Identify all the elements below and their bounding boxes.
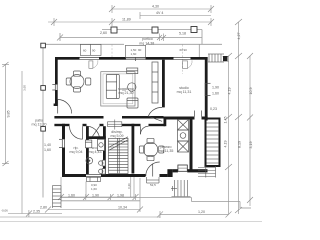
svg-text:1,60: 1,60 xyxy=(44,148,51,152)
svg-text:90: 90 xyxy=(184,48,188,52)
svg-text:4,27: 4,27 xyxy=(237,33,241,40)
svg-text:10,9: 10,9 xyxy=(249,88,253,95)
svg-text:4,19: 4,19 xyxy=(228,88,232,95)
svg-text:1,60: 1,60 xyxy=(131,52,137,56)
svg-text:2,60: 2,60 xyxy=(100,31,107,35)
svg-text:mq 21,30: mq 21,30 xyxy=(119,91,134,95)
svg-text:mq 11,35: mq 11,35 xyxy=(159,149,174,153)
svg-text:mq 9,04: mq 9,04 xyxy=(70,150,83,154)
svg-text:90: 90 xyxy=(92,49,96,53)
svg-text:11,89: 11,89 xyxy=(122,18,131,22)
svg-text:1,60: 1,60 xyxy=(212,92,219,96)
svg-text:mq 11,31: mq 11,31 xyxy=(177,90,192,94)
svg-text:2,35: 2,35 xyxy=(33,210,40,214)
svg-text:1,90: 1,90 xyxy=(212,86,219,90)
svg-text:1,45: 1,45 xyxy=(224,117,228,124)
svg-text:90: 90 xyxy=(138,48,142,52)
svg-text:mq 5,09: mq 5,09 xyxy=(111,134,124,138)
svg-text:-0,06: -0,06 xyxy=(1,209,8,213)
svg-text:1,60: 1,60 xyxy=(68,194,75,198)
svg-text:mq 13,20: mq 13,20 xyxy=(32,123,47,127)
svg-text:2,80: 2,80 xyxy=(40,206,47,210)
svg-text:4V 4: 4V 4 xyxy=(156,11,163,15)
svg-text:5,18: 5,18 xyxy=(179,32,186,36)
svg-text:9,85: 9,85 xyxy=(7,111,11,118)
svg-text:1,40: 1,40 xyxy=(44,143,51,147)
svg-text:4,19: 4,19 xyxy=(224,141,228,148)
svg-text:mq 4,43: mq 4,43 xyxy=(89,150,102,154)
svg-text:60: 60 xyxy=(83,49,87,53)
svg-text:3,60: 3,60 xyxy=(23,85,27,91)
svg-text:1,98: 1,98 xyxy=(117,194,124,198)
svg-text:8,19: 8,19 xyxy=(238,141,242,148)
svg-text:1,20: 1,20 xyxy=(198,210,205,214)
svg-text:1,60: 1,60 xyxy=(91,187,97,191)
svg-text:4,30: 4,30 xyxy=(152,5,159,9)
svg-text:0,23: 0,23 xyxy=(210,107,217,111)
svg-text:10,34: 10,34 xyxy=(118,206,127,210)
svg-text:0,36: 0,36 xyxy=(127,183,131,189)
svg-text:mq 14,38: mq 14,38 xyxy=(139,41,154,45)
svg-text:3,19: 3,19 xyxy=(249,142,253,149)
svg-text:52,5: 52,5 xyxy=(150,183,156,187)
svg-text:1,90: 1,90 xyxy=(92,194,99,198)
